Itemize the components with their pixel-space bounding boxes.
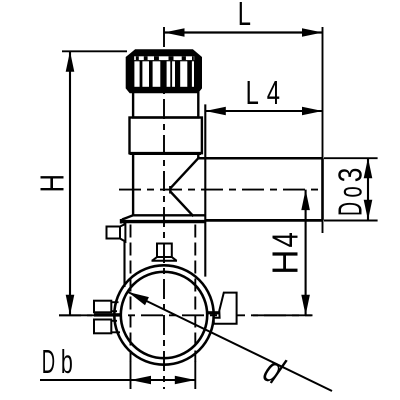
svg-text:4: 4 — [267, 75, 280, 112]
svg-text:H: H — [265, 250, 306, 275]
svg-text:o: o — [331, 186, 368, 197]
svg-text:L: L — [238, 0, 251, 33]
svg-text:4: 4 — [265, 232, 305, 247]
svg-text:D: D — [42, 343, 55, 380]
svg-text:L: L — [246, 75, 259, 112]
svg-text:3: 3 — [333, 168, 369, 183]
svg-text:D: D — [331, 202, 369, 216]
svg-text:H: H — [35, 174, 72, 192]
svg-text:b: b — [61, 343, 73, 380]
